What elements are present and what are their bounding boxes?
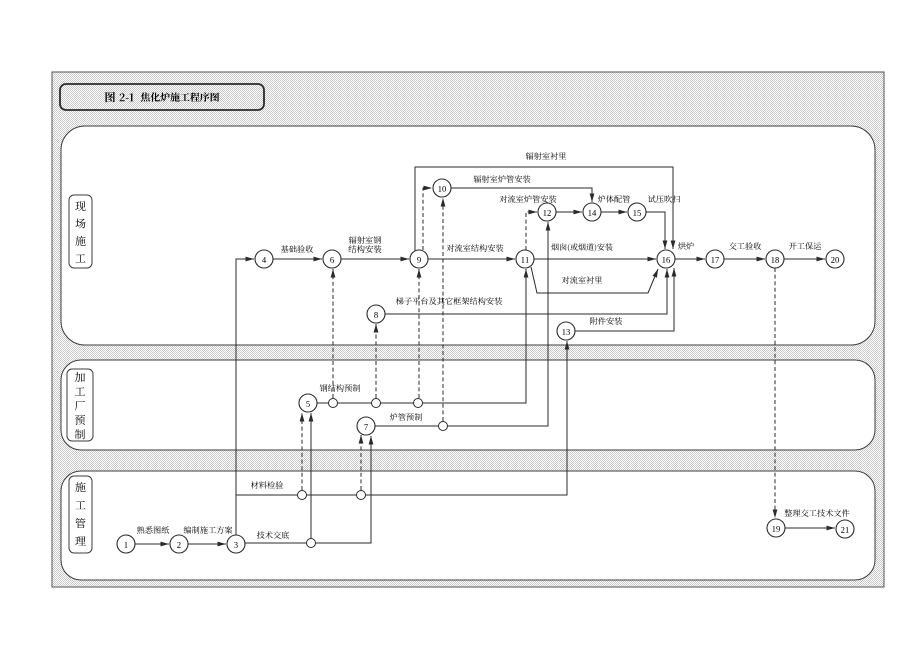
wire dashed 18-to-19 arrow: [774, 268, 776, 518]
lane label 施工管理: [75, 482, 85, 492]
wire dashed 9-to-10 arrow: [423, 188, 432, 250]
node 13: [557, 322, 575, 340]
label 烟囱(或烟道)安装 (11-16): [551, 243, 612, 252]
wire 3-tech-briefing-to-7 solid arrow: [245, 436, 371, 543]
wire 7-prefab-chain-to-12 solid arrow: [375, 222, 548, 426]
node 9: [410, 250, 428, 268]
junction circle J7: [439, 422, 448, 431]
label 编制施工方案 (2-3): [184, 526, 233, 534]
node 8: [367, 305, 385, 323]
lane 现场施工: [61, 126, 875, 345]
label 梯子平台及其它框架结构安装 (8-16): [396, 297, 502, 305]
node 21: [836, 520, 854, 538]
label 对流室衬里 (11-16 bottom path): [562, 276, 602, 284]
node 5: [299, 394, 317, 412]
node 10: [433, 179, 451, 197]
label 交工验收 (17-18): [729, 242, 761, 250]
node 18: [766, 250, 784, 268]
wire 9-11 solid arrow: [428, 258, 515, 260]
node 16: [657, 250, 675, 268]
lane 加工厂预制: [61, 360, 875, 450]
label 辐射室钢结构安装 line1 (6-9): [349, 236, 381, 244]
wire dashed J7-to-10 arrow: [442, 198, 444, 421]
wire 9-radiant-lining-to-16 solid arrow: [415, 167, 673, 251]
wire 18-20 solid arrow: [784, 258, 825, 260]
wire dashed J5-to-8 arrow: [375, 324, 377, 398]
node 7: [357, 417, 375, 435]
label 对流室炉管安装 (12-14): [500, 195, 557, 203]
lane label box 施工管理: [69, 476, 92, 553]
label 炉体配管 (14-15): [598, 195, 630, 203]
node 1: [117, 535, 135, 553]
wire 14-15 solid arrow: [601, 211, 627, 213]
node 12: [538, 203, 556, 221]
junction circle J4: [329, 399, 338, 408]
node 6: [323, 250, 341, 268]
node 17: [706, 250, 724, 268]
lane label box 现场施工: [69, 195, 92, 268]
wire 4-6 solid arrow: [273, 258, 322, 260]
label 钢结构预制 (node 5 chain): [320, 384, 360, 392]
node 20: [826, 250, 844, 268]
junction circle J6: [414, 399, 423, 408]
label 熟悉图纸 (1-2): [137, 526, 169, 534]
label 辐射室炉管安装 (10-14): [474, 175, 531, 183]
wire 8-to-16 solid arrow: [385, 269, 667, 314]
label 整理交工技术文件 (19-21): [784, 509, 849, 517]
wire 11-16 solid arrow: [534, 258, 656, 260]
wire junction-J3-to-5 solid arrow: [310, 413, 312, 538]
label 试压吹扫 (15-16): [648, 195, 680, 203]
junction circle J3: [307, 539, 316, 548]
node 14: [583, 203, 601, 221]
node 19: [767, 519, 785, 537]
lane label 现场施工: [75, 201, 85, 211]
label 对流室结构安装 (9-11): [447, 244, 504, 252]
junction circle J5: [372, 399, 381, 408]
junction circle J2: [357, 491, 366, 500]
node 2: [170, 535, 188, 553]
lane label 加工厂预制: [75, 372, 85, 382]
label 材料检验 (node 3 branch): [251, 481, 283, 489]
wire 3-material-inspection-to-13 solid arrow: [236, 341, 567, 495]
wire 3-up-to-4 solid arrow: [236, 259, 254, 535]
wire dashed J4-to-6 arrow: [332, 269, 334, 398]
junction circle J1: [298, 491, 307, 500]
wire dashed J6-to-9 arrow: [418, 269, 420, 398]
wire 5-prefab-chain-to-11 solid arrow: [317, 269, 526, 403]
node 11: [516, 250, 534, 268]
lane 施工管理: [61, 471, 875, 580]
node 4: [255, 250, 273, 268]
wire dashed J1-to-5 arrow: [301, 413, 303, 490]
label 炉管预制 (node 7 chain): [390, 413, 422, 421]
wire 19-21 solid arrow: [785, 527, 835, 529]
label 附件安装 (13-16): [590, 317, 622, 325]
label 烘炉 (16-17): [678, 242, 694, 250]
label 开工保运 (18-20): [789, 242, 821, 250]
label 基础验收 (4-6): [281, 245, 313, 253]
wire 6-9 solid arrow: [341, 258, 409, 260]
label 技术交底 (node 3 branch): [257, 531, 289, 539]
outer frame with hatch fill: [52, 72, 884, 587]
wire dashed 11-to-12 arrow: [526, 212, 537, 250]
lane label box 加工厂预制: [67, 369, 93, 441]
wire 2-3 solid arrow: [188, 543, 226, 545]
title box: [60, 84, 264, 110]
wire 13-to-16 solid arrow: [575, 268, 674, 331]
wire 10-to-14 solid arrow: [451, 188, 592, 202]
label 辐射室衬里 (9-16 top path): [526, 152, 566, 160]
wire 15-to-16 solid arrow: [646, 212, 665, 249]
wire 16-17 solid arrow: [675, 258, 705, 260]
wire 1-2 solid arrow: [135, 543, 169, 545]
wire 12-14 solid arrow: [556, 211, 582, 213]
node 3: [227, 535, 245, 553]
title text 图 2-1 焦化炉施工程序图: [105, 92, 115, 102]
wire dashed J2-to-7 arrow: [360, 435, 362, 490]
wire 17-18 solid arrow: [724, 258, 765, 260]
wire 11-convection-lining-to-16 solid arrow: [531, 267, 658, 293]
node 15: [628, 203, 646, 221]
